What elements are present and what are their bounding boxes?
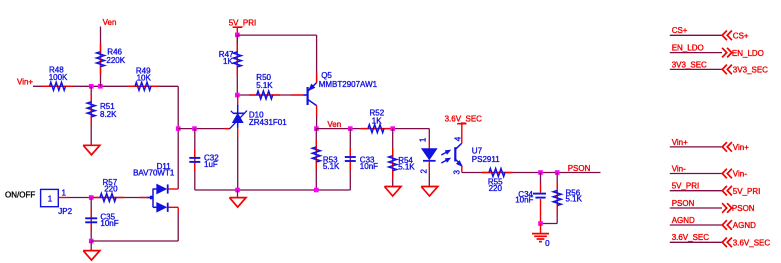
node junction C35 tap <box>89 195 94 200</box>
svg-text:AGND: AGND <box>672 216 695 225</box>
svg-text:3.6V_SEC: 3.6V_SEC <box>672 233 710 242</box>
svg-text:5.1K: 5.1K <box>566 195 583 204</box>
svg-text:PSON: PSON <box>732 204 755 213</box>
svg-text:5.1K: 5.1K <box>323 162 340 171</box>
capacitor C32 <box>194 129 196 190</box>
svg-text:1: 1 <box>62 188 67 197</box>
svg-text:3: 3 <box>452 170 461 175</box>
node junction C33 tap <box>348 126 353 131</box>
svg-text:EN_LDO: EN_LDO <box>672 44 704 53</box>
node junction at 178,128.6 <box>176 126 181 131</box>
capacitor C35 <box>90 198 92 242</box>
off-page connector Vin+ <box>670 146 722 148</box>
svg-text:1: 1 <box>48 194 53 203</box>
svg-text:8.2K: 8.2K <box>100 110 117 119</box>
ground below R54 <box>384 187 401 197</box>
node junction C32 tap <box>192 126 197 131</box>
node junction C35 bottom <box>89 239 94 244</box>
resistor R51 <box>90 86 92 145</box>
resistor R47 <box>236 35 238 95</box>
resistor R48 <box>42 85 73 87</box>
svg-text:1K: 1K <box>223 57 233 66</box>
svg-text:5.1K: 5.1K <box>398 163 415 172</box>
svg-text:220: 220 <box>489 184 503 193</box>
resistor R55 <box>482 172 513 174</box>
wire JP2 to R57 <box>58 197 68 199</box>
U7 LED <box>422 149 437 160</box>
node junction D10 anode/gnd <box>235 188 240 193</box>
U7 LED pin 1 <box>428 129 430 140</box>
ground below D10 <box>229 198 246 208</box>
off-page connector 3V3_SEC <box>670 68 722 70</box>
svg-text:1K: 1K <box>372 116 382 125</box>
svg-text:ZR431F01: ZR431F01 <box>249 118 287 127</box>
node junction R53 bottom <box>314 188 319 193</box>
wire R49 down to Ven node <box>177 86 179 189</box>
svg-text:PSON: PSON <box>568 164 591 173</box>
svg-text:JP2: JP2 <box>58 207 72 216</box>
node junction R47/D10/R50 <box>235 93 240 98</box>
off-page connector 3.6V_SEC <box>670 241 722 243</box>
svg-text:10nF: 10nF <box>360 162 378 171</box>
svg-text:PSON: PSON <box>672 199 695 208</box>
resistor R54 <box>392 129 394 187</box>
svg-text:4: 4 <box>453 136 462 141</box>
off-page connector Vin- <box>670 173 722 175</box>
U7 pin 3 <box>461 166 463 173</box>
svg-text:3V3_SEC: 3V3_SEC <box>672 60 707 69</box>
off-page connector PSON <box>670 207 722 209</box>
wire D11 bottom cathode down <box>177 207 179 213</box>
svg-text:0: 0 <box>545 239 550 248</box>
ground below U7 LED <box>421 187 438 197</box>
node junction R56 tap <box>555 170 560 175</box>
svg-text:MMBT2907AW1: MMBT2907AW1 <box>319 80 378 89</box>
svg-text:CS+: CS+ <box>672 26 688 35</box>
svg-text:10nF: 10nF <box>515 196 533 205</box>
D11 bottom diode <box>157 203 166 212</box>
off-page connector AGND <box>670 224 722 226</box>
node junction below 5V_PRI <box>235 33 240 38</box>
svg-text:Vin+: Vin+ <box>672 138 688 147</box>
wire Ven to R46 <box>100 27 102 87</box>
off-page connector CS+ <box>670 34 722 36</box>
D11 top diode <box>157 184 166 193</box>
capacitor C34 <box>540 173 542 184</box>
node junction ground 0 <box>538 221 543 226</box>
svg-text:Ven: Ven <box>327 120 341 129</box>
node junction C34 tap <box>538 170 543 175</box>
svg-text:100K: 100K <box>49 73 68 82</box>
svg-text:EN_LDO: EN_LDO <box>732 49 764 58</box>
wire Ven rail left segment <box>178 128 230 130</box>
resistor R46 <box>100 44 102 75</box>
svg-text:10K: 10K <box>137 73 152 82</box>
svg-text:ON/OFF: ON/OFF <box>5 191 35 200</box>
ground below R51 <box>83 145 100 155</box>
U7 LED pin 2 <box>428 161 430 171</box>
svg-text:5V_PRI: 5V_PRI <box>229 19 257 28</box>
node junction R46 tap <box>98 84 103 89</box>
svg-text:CS+: CS+ <box>733 32 749 41</box>
svg-text:Vin+: Vin+ <box>733 143 749 152</box>
transistor Q5 (PNP MMBT2907AW1) <box>291 94 304 96</box>
node junction R54 tap <box>390 126 395 131</box>
U7 light arrows <box>441 151 448 155</box>
earth ground 0 <box>540 224 542 234</box>
wire R56 bottom to ground node <box>541 223 558 225</box>
svg-text:Vin+: Vin+ <box>17 77 33 86</box>
resistor R56 <box>556 173 558 224</box>
svg-text:220: 220 <box>104 185 118 194</box>
svg-text:PS2911: PS2911 <box>472 155 500 164</box>
svg-text:Q5: Q5 <box>321 71 332 80</box>
svg-text:10nF: 10nF <box>100 219 118 228</box>
svg-text:5V_PRI: 5V_PRI <box>672 182 700 191</box>
bottom ground rail <box>195 189 350 191</box>
resistor R57 <box>93 197 124 199</box>
resistor R50 <box>249 94 280 96</box>
wire bottom-left rail <box>91 240 178 242</box>
wire 5V_PRI to Q5 emitter <box>237 34 316 36</box>
svg-text:Ven: Ven <box>103 18 117 27</box>
wire PSON output <box>462 172 601 174</box>
svg-text:BAV70WT1: BAV70WT1 <box>133 168 175 177</box>
svg-text:3V3_SEC: 3V3_SEC <box>733 66 768 75</box>
svg-text:3.6V_SEC: 3.6V_SEC <box>445 115 483 124</box>
svg-text:Vin-: Vin- <box>733 170 747 179</box>
svg-text:220K: 220K <box>106 56 125 65</box>
node junction R51 tap <box>89 84 94 89</box>
capacitor C33 <box>349 129 351 190</box>
svg-text:5.1K: 5.1K <box>256 81 273 90</box>
svg-text:3.6V_SEC: 3.6V_SEC <box>733 239 771 248</box>
svg-text:1: 1 <box>419 137 428 142</box>
svg-text:AGND: AGND <box>733 221 756 230</box>
resistor R49 <box>128 85 159 87</box>
ground below C35 <box>83 251 100 261</box>
node junction Ven/collector <box>314 126 319 131</box>
shunt regulator D10 ZR431F01 <box>237 95 239 104</box>
svg-text:1uF: 1uF <box>204 160 218 169</box>
wire Vin+ rail <box>33 85 178 87</box>
U7 phototransistor <box>454 147 456 161</box>
resistor R52 <box>361 128 392 130</box>
wire Ven rail right segment <box>316 128 429 130</box>
resistor R53 <box>315 129 317 190</box>
U7 pin 4 <box>461 124 463 144</box>
off-page connector EN_LDO <box>670 52 722 54</box>
wire base drive <box>237 94 307 96</box>
off-page connector 5V_PRI <box>670 190 722 192</box>
svg-text:5V_PRI: 5V_PRI <box>733 187 761 196</box>
svg-text:Vin-: Vin- <box>672 164 686 173</box>
svg-text:2: 2 <box>420 169 429 174</box>
